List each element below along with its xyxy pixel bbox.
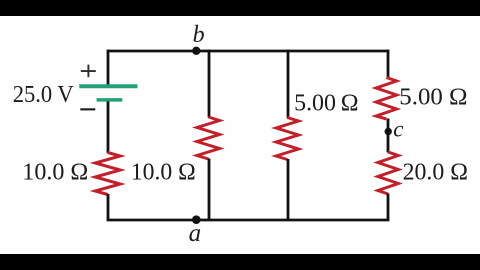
wire bottom rail a bbox=[107, 219, 389, 222]
wire top rail b bbox=[107, 50, 389, 53]
wire branch2 bottom lead bbox=[208, 159, 211, 222]
resistor R5 20 ohm right zigzag bbox=[378, 152, 398, 194]
svg-text:10.0 Ω: 10.0 Ω bbox=[22, 160, 88, 186]
wire battery to R1 bbox=[107, 102, 110, 154]
wire R1 bottom lead bbox=[107, 194, 110, 221]
node a dot bbox=[192, 215, 201, 224]
wire R5 bottom lead bbox=[387, 194, 390, 222]
resistor R4 5 ohm right zigzag bbox=[376, 78, 397, 120]
svg-text:b: b bbox=[193, 22, 205, 48]
wire branch2 top lead bbox=[208, 50, 211, 118]
svg-text:c: c bbox=[393, 117, 403, 142]
resistor R3 5 ohm middle zigzag bbox=[276, 118, 298, 160]
wire R4 to node c bbox=[387, 119, 390, 153]
svg-text:a: a bbox=[189, 220, 202, 247]
minus sign label bbox=[80, 108, 95, 110]
plus sign label bbox=[81, 65, 96, 78]
svg-text:25.0 V: 25.0 V bbox=[13, 82, 75, 108]
svg-text:10.0 Ω: 10.0 Ω bbox=[131, 160, 196, 186]
resistor R1 10 ohm left zigzag bbox=[95, 153, 120, 195]
node c dot bbox=[385, 128, 392, 135]
node b dot bbox=[192, 47, 200, 55]
wire battery top lead bbox=[107, 50, 110, 85]
svg-text:5.00 Ω: 5.00 Ω bbox=[399, 84, 467, 110]
svg-text:20.0 Ω: 20.0 Ω bbox=[403, 160, 468, 186]
battery negative plate bbox=[97, 98, 123, 102]
battery positive plate bbox=[79, 84, 137, 88]
wire branch3 top lead bbox=[287, 50, 290, 118]
svg-text:5.00 Ω: 5.00 Ω bbox=[294, 90, 359, 116]
resistor R2 10 ohm middle zigzag bbox=[197, 117, 220, 159]
wire branch3 bottom lead bbox=[287, 159, 290, 221]
wire branch4 top lead bbox=[387, 50, 390, 78]
